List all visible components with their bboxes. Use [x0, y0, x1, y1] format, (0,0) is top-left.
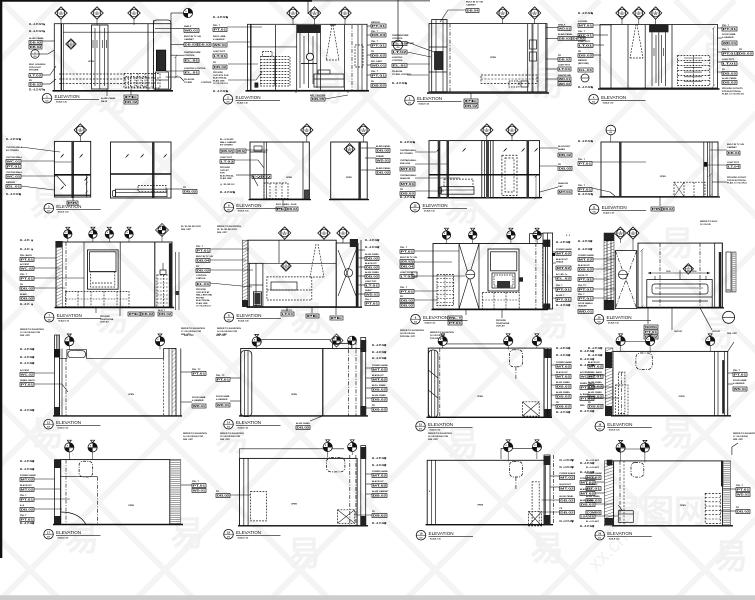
elevation 10 top circle marker [606, 125, 616, 135]
elevation 12 bottom labels [286, 307, 288, 311]
svg-text:AC LED. 7a: AC LED. 7a [556, 273, 568, 276]
elevation 21 dash-dot vertical right [553, 455, 555, 525]
elevation 5 thick divider [71, 142, 74, 198]
elevation 16 thick divider [322, 349, 324, 416]
elevation 15 left band [55, 335, 60, 416]
svg-text:WD.01: WD.01 [372, 64, 386, 68]
svg-text:MULLION: MULLION [400, 163, 410, 165]
svg-text:LT.01: LT.01 [214, 54, 227, 58]
svg-text:ELEVATION: ELEVATION [56, 530, 81, 535]
svg-text:OPEN: OPEN [128, 505, 134, 507]
elevation 17 right dark band [544, 348, 551, 417]
svg-text:(BEYOND): (BEYOND) [578, 63, 589, 65]
svg-text:DB.02: DB.02 [559, 58, 571, 62]
svg-text:PNL. T: PNL. T [371, 31, 379, 33]
svg-text:EL +2.35: EL +2.35 [20, 240, 30, 242]
svg-text:FOR ELECTRICAL: FOR ELECTRICAL [727, 179, 747, 182]
elevation 2 dark header band [297, 25, 321, 33]
svg-text:EL +0.15 AFF: EL +0.15 AFF [586, 520, 600, 523]
elevation 18 left hatch band [605, 348, 613, 416]
elevation 15 title [44, 419, 54, 429]
svg-text:DB.02: DB.02 [287, 207, 298, 211]
elevation 1 bottom labels [106, 89, 108, 96]
svg-text:LT.01: LT.01 [282, 312, 294, 316]
elevation 21 marker circles [501, 447, 537, 449]
svg-text:SCALE 1:25: SCALE 1:25 [237, 102, 248, 105]
svg-text:BLACKOUT: BLACKOUT [20, 484, 32, 487]
svg-text:SCALE 1:25: SCALE 1:25 [609, 429, 620, 432]
svg-text:PROVIDE: PROVIDE [100, 316, 110, 318]
elevation 3 dark mirror panel [435, 52, 444, 70]
svg-text:610: 610 [592, 102, 595, 104]
elevation 17 marker circles [443, 343, 509, 345]
elevation 17 main box [428, 348, 544, 417]
elevation 22 left hatch band [604, 461, 613, 526]
elevation 3 dash-dot edge [449, 24, 451, 92]
svg-text:SCALE 1:25: SCALE 1:25 [58, 537, 69, 540]
svg-text:610: 610 [501, 14, 504, 16]
svg-text:PT.01: PT.01 [579, 34, 593, 38]
svg-text:PNL. T: PNL. T [449, 316, 462, 320]
svg-text:REFER TO ELEVATION: REFER TO ELEVATION [181, 327, 205, 330]
svg-text:DB.02: DB.02 [184, 190, 197, 194]
svg-text:DB.02: DB.02 [401, 299, 414, 303]
svg-text:610: 610 [609, 132, 612, 134]
elevation 6 mirror leafs [125, 154, 129, 158]
svg-text:LT.04: LT.04 [728, 165, 740, 169]
svg-text:DB.02: DB.02 [557, 395, 571, 399]
svg-text:REFER TO ELEVATION: REFER TO ELEVATION [220, 432, 244, 435]
svg-text:610: 610 [227, 537, 230, 539]
svg-text:610: 610 [593, 212, 596, 214]
svg-text:ALUM. PANEL: ALUM. PANEL [365, 253, 380, 256]
svg-text:DB.04: DB.04 [467, 9, 479, 13]
svg-text:REFER TO ELEVATION: REFER TO ELEVATION [217, 225, 241, 228]
elevation 18 top hanging capsule [636, 353, 652, 370]
svg-text:610: 610 [305, 131, 308, 133]
svg-text:MT.02: MT.02 [581, 492, 595, 496]
svg-text:SHADE: SHADE [556, 261, 564, 264]
svg-text:DB.02: DB.02 [21, 297, 34, 301]
elevation 12 sofa dashed [267, 277, 312, 300]
svg-text:610: 610 [292, 14, 295, 16]
svg-text:PE: PE [129, 312, 139, 316]
svg-text:LT.01: LT.01 [579, 44, 593, 48]
svg-text:610: 610 [362, 131, 365, 133]
elevation 11 right dashed tall cabinet [157, 275, 171, 307]
svg-text:610: 610 [419, 429, 422, 431]
elevation 18 right column [714, 351, 716, 415]
elevation 15 top capsule [68, 351, 86, 358]
svg-text:PT.01: PT.01 [401, 250, 414, 254]
svg-text:BUILT-IN TV / AV: BUILT-IN TV / AV [466, 1, 484, 4]
svg-text:FOR ELECTRICAL: FOR ELECTRICAL [722, 90, 742, 93]
svg-text:8: 8 [65, 232, 66, 234]
elevation 15 marker circles [65, 337, 74, 346]
elevation 9 right annotation stack [540, 147, 559, 149]
svg-text:610: 610 [47, 427, 50, 429]
svg-text:8: 8 [67, 445, 68, 447]
svg-text:BUILT-IN TV / AV: BUILT-IN TV / AV [400, 256, 418, 259]
svg-text:DB.02: DB.02 [401, 304, 414, 308]
svg-text:SCALE 1:25: SCALE 1:25 [238, 427, 249, 430]
svg-text:OUTLETS FOR: OUTLETS FOR [213, 75, 229, 77]
svg-text:EL +0.15 AFF: EL +0.15 AFF [578, 86, 593, 89]
svg-text:MT.02: MT.02 [557, 252, 571, 256]
svg-text:OPEN: OPEN [291, 394, 297, 396]
elevation 12 left hatch strip [243, 240, 249, 307]
svg-text:SCALE 1:25: SCALE 1:25 [58, 320, 69, 323]
svg-text:MT.02: MT.02 [373, 484, 387, 488]
svg-text:LT.01: LT.01 [366, 284, 379, 288]
svg-text:DB.02: DB.02 [125, 100, 138, 104]
svg-text:REFER TO ELEVATION: REFER TO ELEVATION [733, 432, 755, 435]
svg-text:PT.01: PT.01 [557, 298, 571, 302]
elevation 10 bottom label [659, 197, 661, 206]
elevation 4 dresser dashed drawers [678, 56, 710, 86]
svg-text:610: 610 [511, 131, 514, 133]
svg-text:DB.02: DB.02 [159, 312, 172, 316]
svg-text:OPEN: OPEN [679, 396, 685, 398]
elevation 13 dash-dot vertical [535, 235, 537, 309]
svg-text:610: 610 [313, 14, 316, 16]
svg-text:EL +2.35 AFF: EL +2.35 AFF [578, 12, 593, 15]
svg-text:610: 610 [227, 102, 230, 104]
svg-text:8: 8 [618, 339, 619, 341]
elevation 1 marker diamond c [128, 7, 140, 19]
svg-text:DB.02: DB.02 [560, 499, 574, 503]
svg-text:SCALE 1:25: SCALE 1:25 [609, 538, 620, 541]
svg-text:DB.02: DB.02 [377, 149, 390, 153]
svg-text:MT.02: MT.02 [581, 481, 595, 485]
svg-text:ELEVATION: ELEVATION [607, 315, 632, 320]
svg-text:GL.01: GL.01 [579, 68, 593, 72]
svg-text:DB.02: DB.02 [366, 275, 379, 279]
svg-text:DIM. OPP.: DIM. OPP. [184, 335, 195, 337]
elevation 21 main box [427, 460, 545, 524]
elevation 4 dark header band [649, 25, 668, 33]
elevation 14 left hatch strip [604, 233, 614, 310]
svg-text:SCALE 1:25: SCALE 1:25 [608, 322, 619, 325]
svg-text:TELEPHONE: TELEPHONE [100, 319, 114, 321]
svg-text:ACCENT: ACCENT [20, 263, 30, 266]
elevation 13 main box [433, 244, 545, 310]
elevation 19 left band [55, 460, 61, 525]
svg-text:PANEL: PANEL [558, 148, 566, 151]
svg-text:SCALE 1:25: SCALE 1:25 [424, 210, 435, 213]
svg-text:6: 6 [342, 231, 343, 233]
elevation 13 marker circles [442, 231, 450, 239]
svg-text:PT.01: PT.01 [21, 383, 34, 387]
svg-text:ALUM. PANEL: ALUM. PANEL [580, 499, 595, 502]
elevation 3 bottom dashed bench [481, 75, 537, 83]
svg-text:PT.01: PT.01 [193, 372, 206, 376]
svg-text:ALUM. PANEL: ALUM. PANEL [365, 271, 380, 274]
elevation 10 right closet lines [703, 142, 705, 197]
svg-text:ALUM. CABINET: ALUM. CABINET [372, 490, 389, 493]
svg-text:DB.02: DB.02 [21, 508, 34, 512]
elevation 6 horizontal divider [111, 173, 172, 175]
elevation 16 left jamb [241, 351, 252, 417]
svg-text:PLAN. SEE: PLAN. SEE [213, 79, 225, 82]
svg-text:DB.02: DB.02 [723, 81, 737, 85]
svg-text:DB.02: DB.02 [297, 426, 310, 430]
svg-text:6: 6 [314, 11, 315, 13]
elevation 22 top hanging capsule [631, 463, 644, 478]
svg-text:HEADER: HEADER [578, 305, 587, 308]
svg-text:6: 6 [306, 128, 307, 130]
elevation 5 marker diamond [74, 124, 86, 136]
svg-text:610: 610 [632, 234, 635, 236]
svg-text:610: 610 [48, 320, 51, 322]
svg-text:OUTLET: OUTLET [220, 170, 229, 172]
svg-text:(DB.02): (DB.02) [221, 149, 233, 153]
svg-text:PE: PE [277, 207, 284, 211]
svg-text:BY OTHERS: BY OTHERS [6, 150, 19, 152]
elevation 22 right dashed large rect [705, 493, 720, 523]
svg-text:8: 8 [509, 233, 510, 235]
elevation 20 right dark band [361, 446, 366, 526]
elevation 1 main box [54, 24, 171, 91]
svg-text:DB.02: DB.02 [217, 494, 230, 498]
svg-text:WC.02: WC.02 [581, 375, 594, 379]
svg-text:POWER SHADE: POWER SHADE [580, 477, 596, 480]
svg-text:6: 6 [638, 11, 639, 13]
elevation 2 pendant lamp dashed [326, 25, 332, 60]
elevation 8 right annotation stack [361, 147, 376, 149]
elevation 4 pendant lamp dashed [630, 25, 636, 59]
svg-text:8: 8 [350, 445, 351, 447]
svg-text:DB.02: DB.02 [21, 287, 34, 291]
svg-text:POWER SHADE: POWER SHADE [372, 470, 388, 473]
svg-text:6: 6 [323, 231, 324, 233]
elevation 8 thick divider [358, 142, 361, 199]
svg-text:8: 8 [90, 445, 91, 447]
svg-text:BUILT-IN TV / AV: BUILT-IN TV / AV [184, 35, 202, 38]
svg-text:MT.02: MT.02 [373, 378, 387, 382]
elevation 8 symbol diamond inside [344, 144, 355, 155]
svg-text:PE PER: PE PER [196, 297, 204, 299]
svg-text:OPEN: OPEN [490, 57, 496, 59]
elevation 8 marker diamond top [357, 124, 369, 136]
elevation 21 top hanging capsule [509, 462, 522, 478]
svg-text:DB.03: DB.03 [199, 43, 211, 47]
elevation 16 title [224, 419, 234, 429]
elevation 11 small box top right [160, 270, 166, 275]
svg-text:TELEPHONE: TELEPHONE [496, 323, 510, 325]
svg-text:ELEVATION: ELEVATION [236, 530, 261, 535]
elevation 3 small wall socket [509, 81, 519, 87]
svg-text:SCALE 1:25: SCALE 1:25 [58, 427, 69, 430]
elevation 18 main box [613, 351, 728, 415]
elevation 6 right leader and label [167, 188, 183, 190]
elevation 21 bottom dashed cabinet [529, 512, 542, 526]
svg-text:(DB.02): (DB.02) [401, 260, 413, 264]
svg-text:610: 610 [227, 427, 230, 429]
elevation 13 bottom cabinets [482, 292, 519, 309]
elevation 7 bottom label [282, 200, 284, 206]
svg-text:PROVIDE: PROVIDE [220, 167, 230, 169]
svg-text:PB: PB [652, 207, 662, 211]
svg-text:LT.02: LT.02 [30, 74, 42, 78]
svg-text:EL +2.35 AFF: EL +2.35 AFF [29, 23, 44, 26]
svg-text:EL.01: EL.01 [393, 64, 407, 68]
svg-text:PT.01: PT.01 [723, 27, 737, 31]
elevation 13 x-brace panel [458, 244, 460, 310]
svg-text:FOR DIM. OPP.: FOR DIM. OPP. [400, 336, 416, 338]
svg-text:PT.01: PT.01 [449, 321, 462, 325]
elevation 16 bottom label [310, 416, 323, 421]
svg-text:8: 8 [444, 233, 445, 235]
svg-text:DOOR JAMB: DOOR JAMB [722, 33, 736, 36]
elevation 11 bottom dashed cabinets [66, 291, 129, 306]
elevation 22 title [595, 530, 605, 540]
svg-text:610: 610 [408, 103, 411, 105]
svg-text:BLACKOUT: BLACKOUT [365, 262, 377, 265]
svg-text:PANEL. BACK: PANEL. BACK [20, 379, 35, 382]
svg-text:EL +0.15: EL +0.15 [20, 304, 30, 306]
svg-text:ELEC. PANEL - PLAN: ELEC. PANEL - PLAN [276, 203, 297, 206]
svg-text:ELECTRICAL: ELECTRICAL [196, 299, 211, 302]
svg-text:PANEL. BACK: PANEL. BACK [588, 371, 603, 374]
svg-text:DB.02: DB.02 [373, 514, 387, 518]
elevation 10 dark socket [704, 162, 708, 167]
svg-text:PT.01: PT.01 [214, 28, 227, 32]
svg-text:& HEADER: & HEADER [192, 399, 204, 402]
svg-text:ELEVATION: ELEVATION [236, 420, 261, 425]
elevation 17 left jamb [428, 350, 438, 417]
svg-text:PT.01: PT.01 [193, 484, 206, 488]
svg-text:610: 610 [46, 101, 49, 103]
elevation 20 main box [240, 458, 358, 525]
svg-text:OUTLET: OUTLET [496, 326, 505, 328]
svg-text:CABINET: CABINET [727, 146, 737, 149]
svg-text:DOOR JAMB: DOOR JAMB [192, 396, 206, 399]
elevation 15 interior lines [65, 358, 67, 416]
elevation 14 interior verticals [659, 243, 661, 307]
svg-text:6: 6 [284, 231, 285, 233]
elevation 11 title [44, 312, 54, 322]
svg-text:ALUM. PANEL: ALUM. PANEL [588, 391, 603, 394]
svg-text:DB.02: DB.02 [366, 266, 379, 270]
elevation 13 left dashed cabinet [437, 275, 454, 306]
svg-text:MT.01: MT.01 [579, 24, 593, 28]
svg-text:DIM. OPP.: DIM. OPP. [217, 232, 228, 234]
svg-text:6: 6 [632, 231, 633, 233]
svg-text:WD.01: WD.01 [193, 489, 206, 493]
elevation 11 dark right edge band [169, 243, 172, 307]
svg-text:610: 610 [47, 537, 50, 539]
elevation 19 marker circles [65, 443, 74, 452]
svg-text:MT.02: MT.02 [560, 487, 574, 491]
svg-text:DB.02: DB.02 [372, 84, 386, 88]
svg-text:BLIND PANEL: BLIND PANEL [376, 167, 391, 170]
svg-text:OPEN: OPEN [291, 504, 297, 506]
elevation 9 dimension ticks [535, 176, 537, 198]
elevation 12 dark cabinet [253, 292, 261, 306]
svg-text:MT.02: MT.02 [373, 368, 387, 372]
elevation 14 door panel [615, 251, 636, 309]
svg-text:PROVIDE OUTLET: PROVIDE OUTLET [727, 177, 747, 179]
svg-text:610: 610 [654, 14, 657, 16]
svg-text:OUTLET: OUTLET [712, 331, 721, 333]
svg-text:CUSTOM WALL: CUSTOM WALL [6, 156, 23, 159]
svg-text:EL +2.20: EL +2.20 [20, 249, 30, 251]
elevation 21 left band [431, 460, 433, 524]
svg-text:WC.01: WC.01 [7, 160, 21, 164]
svg-text:8: 8 [534, 339, 535, 341]
svg-text:16 / ID-OR-500 FOR: 16 / ID-OR-500 FOR [428, 436, 448, 438]
elevation 3 marker diamonds [497, 7, 509, 19]
elevation 22 vertical leader to note [731, 447, 733, 455]
svg-text:ELEVATION: ELEVATION [429, 531, 454, 536]
elevation 16 main box [241, 349, 362, 416]
svg-text:ELEVATION: ELEVATION [601, 95, 626, 100]
elevation 1 dashed drawer unit [124, 74, 160, 89]
svg-text:EL.01: EL.01 [185, 59, 199, 63]
svg-text:DIM. OPP.: DIM. OPP. [183, 439, 194, 441]
elevation 19 interior step [61, 476, 98, 478]
elevation 14 main box [638, 243, 722, 307]
svg-text:POWER SHADE: POWER SHADE [20, 474, 36, 477]
svg-text:14 / ID-OR-500: 14 / ID-OR-500 [400, 332, 416, 335]
svg-text:PROVIDE: PROVIDE [496, 320, 506, 322]
svg-text:DIM. OPP.: DIM. OPP. [727, 333, 738, 335]
svg-text:WD.01: WD.01 [559, 77, 571, 81]
svg-text:DB.02: DB.02 [373, 494, 387, 498]
svg-text:DB.02: DB.02 [373, 398, 387, 402]
elevation 1 interior verticals [60, 24, 62, 91]
svg-text:PT.01: PT.01 [372, 24, 386, 28]
elevation 20 interior dashed wardrobe [251, 492, 267, 521]
elevation 9 main box [429, 141, 540, 198]
svg-text:610: 610 [348, 150, 351, 152]
svg-text:PT.01: PT.01 [372, 74, 386, 78]
elevation 12 main box [248, 240, 336, 307]
svg-text:A. B: A. B [20, 504, 25, 507]
svg-text:WALL BEYOND: WALL BEYOND [196, 294, 213, 297]
svg-text:ELEVATION: ELEVATION [423, 315, 448, 320]
elevation 22 interior small box [618, 511, 633, 523]
svg-text:PT.01: PT.01 [197, 249, 210, 253]
svg-text:W / ID-OR-500 FOR: W / ID-OR-500 FOR [181, 226, 201, 228]
elevation 2 main box [248, 24, 368, 90]
svg-text:ELEVATION: ELEVATION [55, 94, 80, 99]
elevation 5 mirror leafs [60, 154, 64, 158]
svg-text:BY OTHERS: BY OTHERS [400, 153, 413, 155]
svg-text:610: 610 [34, 56, 37, 58]
svg-text:PLAN. 10 / ID-OR-101: PLAN. 10 / ID-OR-101 [722, 93, 745, 96]
svg-text:EL +0.15 AFF: EL +0.15 AFF [578, 193, 593, 196]
svg-text:LT.01: LT.01 [559, 67, 571, 71]
svg-text:EL +0.15 AFF: EL +0.15 AFF [6, 193, 21, 196]
svg-text:BEDDING: BEDDING [645, 325, 658, 329]
svg-text:WD.01: WD.01 [217, 403, 230, 407]
svg-text:BUILT-IN TV / AV: BUILT-IN TV / AV [727, 143, 745, 146]
svg-text:8: 8 [506, 339, 507, 341]
elevation 16 right dark band [361, 338, 366, 416]
elevation 18 left dashed rects [618, 372, 625, 414]
svg-text:DIM. OPP.: DIM. OPP. [733, 439, 744, 441]
elevation 11 left hatched strip [56, 242, 62, 307]
elevation 21 right dark band [544, 455, 550, 525]
svg-text:GAP: GAP [558, 185, 563, 188]
elevation 22 interior dash-dot [619, 461, 621, 526]
svg-text:MT.02: MT.02 [557, 266, 571, 270]
svg-text:STATION: STATION [196, 277, 206, 280]
svg-text:DB.02: DB.02 [197, 269, 210, 273]
svg-text:DIM. OPP.: DIM. OPP. [181, 229, 192, 231]
